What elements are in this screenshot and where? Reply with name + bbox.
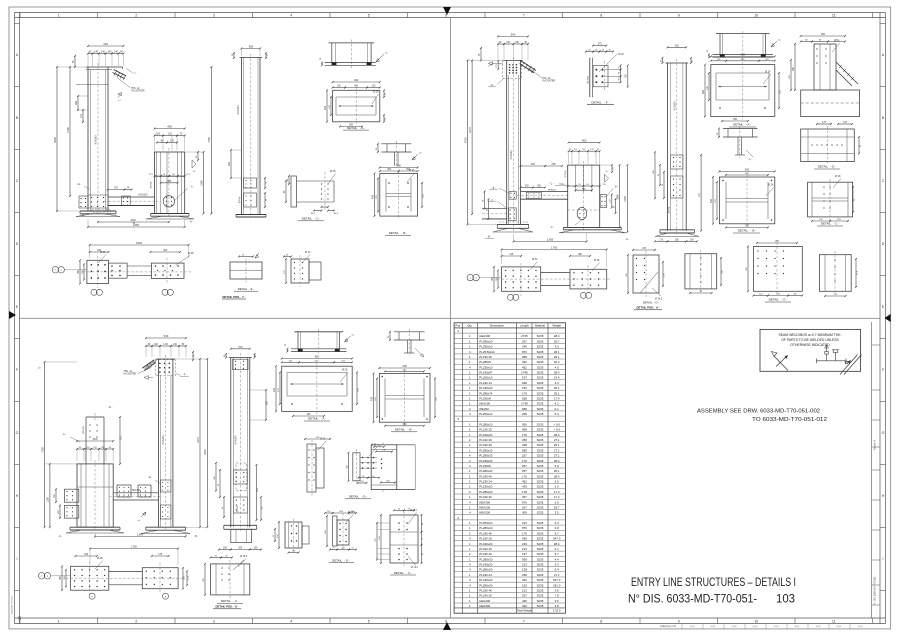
- Q1 plan view dim tier: [90, 251, 109, 253]
- svg-text:ASSEMBLY SEE DRW. 6033-MD-T70-: ASSEMBLY SEE DRW. 6033-MD-T70-051-002: [697, 409, 820, 415]
- Q1 gusset dims above: [155, 128, 185, 130]
- svg-text:- F -: - F -: [182, 374, 187, 377]
- svg-text:S235: S235: [537, 355, 544, 359]
- svg-text:240: 240: [273, 387, 276, 392]
- svg-text:- C -: - C -: [62, 433, 67, 436]
- Q3 plan tier dims: [75, 555, 97, 557]
- Q1 gusset girder frame: [155, 152, 185, 214]
- svg-text:600: 600: [93, 437, 98, 441]
- Q2 plan leader d28: [592, 263, 600, 272]
- svg-text:Ø 28: Ø 28: [594, 259, 600, 262]
- svg-text:S235: S235: [537, 381, 544, 385]
- svg-text:400: 400: [370, 396, 373, 401]
- svg-text:PL190x8: PL190x8: [479, 464, 491, 468]
- Q1 gusset weld symbol: [192, 160, 196, 168]
- svg-text:1030: 1030: [130, 219, 136, 222]
- Q3 column K5 top bolted head: [159, 363, 161, 365]
- svg-text:S235: S235: [537, 542, 544, 546]
- svg-text:257: 257: [522, 506, 527, 510]
- Q1 detail A leader d26: [372, 94, 379, 104]
- svg-text:PL190 44: PL190 44: [479, 381, 492, 385]
- Q1 small dim 75 top-left: [74, 56, 76, 67]
- Q1 column K2 top dim 300: [242, 48, 261, 50]
- Q2 column K4 centreline: [676, 59, 678, 234]
- svg-text:1: 1: [58, 13, 60, 17]
- Q3 detail F column section: [285, 522, 302, 548]
- svg-text:9.7: 9.7: [555, 531, 559, 535]
- svg-text:S235: S235: [537, 422, 544, 426]
- svg-text:scale(mm) 1:10: scale(mm) 1:10: [660, 626, 677, 628]
- Q3 left girder frame: [77, 464, 113, 527]
- svg-text:- F -: - F -: [550, 226, 555, 229]
- svg-text:DETAIL - D -: DETAIL - D -: [643, 301, 660, 305]
- Q2 detail D box: [633, 249, 655, 251]
- svg-text:3: 3: [213, 619, 215, 623]
- Q3 column K5 lower connection plates: [160, 480, 171, 492]
- svg-text:PL280x8: PL280x8: [479, 360, 491, 364]
- svg-text:- E -: - E -: [614, 186, 619, 189]
- svg-text:DETAIL - A -: DETAIL - A -: [733, 123, 751, 127]
- svg-text:H: H: [882, 494, 885, 498]
- svg-text:5: 5: [368, 13, 370, 17]
- svg-text:Ø 26: Ø 26: [373, 91, 379, 94]
- svg-text:DETAIL - C -: DETAIL - C -: [221, 599, 239, 603]
- svg-text:5 0,1: 5 0,1: [837, 626, 843, 628]
- svg-text:PL280x20: PL280x20: [479, 557, 492, 561]
- Q1 detail C plate: [291, 176, 297, 207]
- Q2 detail F dims: [593, 45, 606, 47]
- svg-text:Ø 22: Ø 22: [618, 53, 624, 56]
- svg-text:342: 342: [522, 360, 527, 364]
- svg-text:320: 320: [228, 161, 231, 166]
- Q1 detail B plate: [380, 174, 418, 217]
- svg-text:3.8: 3.8: [555, 526, 559, 530]
- svg-text:13.4: 13.4: [554, 376, 560, 380]
- Q3 detail B T-section: [394, 331, 425, 333]
- Q1 column K2 centreline: [250, 54, 252, 218]
- top strip ticks and numbers: [19, 13, 21, 18]
- svg-text:300: 300: [167, 180, 172, 183]
- right strip ticks and letters: [880, 23, 886, 25]
- Q1 column K1 top dimension tier: [88, 53, 93, 55]
- Q2 corner bracket diagonal: [836, 62, 858, 84]
- Q3 detail C2 leader d18.0: [408, 513, 417, 525]
- Q1 detail C leader d18: [328, 174, 336, 185]
- Q2 plan left dims: [493, 267, 495, 291]
- Q3 column K6 bottom dims: [219, 549, 231, 551]
- Q3 detail E leader d23.2: [346, 515, 354, 523]
- svg-text:3.5: 3.5: [555, 511, 559, 515]
- Q2 plan right plate: [570, 269, 607, 289]
- svg-text:Ø 28: Ø 28: [342, 369, 348, 372]
- svg-text:S235: S235: [537, 464, 544, 468]
- svg-text:0.1: 0.1: [555, 407, 559, 411]
- top centre fold mark: [443, 7, 451, 15]
- Q3 thk note leader: [138, 367, 152, 373]
- Q2 detail A U-section: [716, 33, 770, 35]
- Q1 column K1 centreline: [97, 63, 99, 214]
- Q2 column K4 upper connection box: [671, 155, 683, 169]
- svg-text:547.0: 547.0: [553, 537, 561, 541]
- svg-text:IN-CENTER: IN-CENTER: [124, 374, 137, 376]
- svg-text:360: 360: [75, 100, 78, 105]
- svg-text:900: 900: [582, 139, 587, 143]
- svg-text:255: 255: [531, 163, 536, 166]
- svg-text:258: 258: [522, 412, 527, 416]
- svg-text:5: 5: [368, 619, 370, 623]
- svg-text:HEA300: HEA300: [479, 604, 490, 608]
- svg-text:213: 213: [522, 563, 527, 567]
- svg-text:S235: S235: [537, 480, 544, 484]
- Q3 column K5 centreline: [165, 355, 167, 531]
- svg-text:DETAIL - E -: DETAIL - E -: [332, 558, 350, 562]
- svg-text:THK. 10,: THK. 10,: [542, 78, 551, 80]
- svg-text:1 0,5: 1 0,5: [690, 626, 696, 628]
- svg-text:S235: S235: [537, 365, 544, 369]
- Q2 plan view tier dims: [502, 255, 521, 257]
- Q3 left assembly dims 600: [77, 440, 113, 442]
- Q3 detail B dims: [379, 367, 430, 369]
- svg-text:5 0,1: 5 0,1: [753, 626, 759, 628]
- Q3 plan shaft: [109, 571, 143, 573]
- Q2 column K4 right dim 878: [700, 155, 702, 231]
- Q1 plan axis marker B: [91, 289, 97, 295]
- svg-text:ENTRY LINE STRUCTURES – DETAIL: ENTRY LINE STRUCTURES – DETAILS I: [631, 577, 796, 589]
- svg-text:2: 2: [135, 619, 137, 623]
- Q1 detail pos7 dims: [284, 256, 291, 258]
- Q2 column K4 bottom dims: [655, 240, 667, 242]
- svg-text:- E -: - E -: [490, 84, 495, 87]
- svg-text:(P1300): (P1300): [588, 76, 590, 84]
- svg-text:175: 175: [598, 43, 603, 46]
- Q1 base plate flanges: [76, 214, 92, 217]
- svg-text:240: 240: [324, 105, 327, 110]
- svg-text:PL280x20: PL280x20: [479, 490, 492, 494]
- Q2 plan leader d22: [530, 262, 538, 271]
- Q2 girder internal dims: [568, 185, 576, 187]
- weld symbol left: [772, 352, 778, 357]
- svg-text:PL280x20: PL280x20: [479, 568, 492, 572]
- svg-text:170: 170: [170, 140, 175, 143]
- svg-text:S235: S235: [537, 485, 544, 489]
- Q1 right dim 2208: [210, 67, 212, 214]
- svg-text:3.4: 3.4: [555, 521, 559, 525]
- svg-text:> 0.0: > 0.0: [553, 428, 560, 432]
- Q3 plan axis marker C2: [38, 573, 44, 579]
- svg-text:S235: S235: [537, 604, 544, 608]
- svg-text:HEA500: HEA500: [548, 188, 557, 191]
- svg-text:429: 429: [522, 485, 527, 489]
- Q2 small dim 75 left: [480, 48, 482, 60]
- svg-text:938: 938: [522, 557, 527, 561]
- corner junction circle: [18, 617, 21, 620]
- svg-text:S235: S235: [537, 531, 544, 535]
- svg-text:PL190 26: PL190 26: [479, 537, 492, 541]
- svg-text:Ø 18.0: Ø 18.0: [410, 510, 418, 512]
- Q1 detail B T-section: [381, 143, 411, 145]
- svg-text:S235: S235: [537, 568, 544, 572]
- svg-text:S235: S235: [537, 557, 544, 561]
- svg-text:- B -: - B -: [194, 535, 199, 538]
- svg-text:DETAIL - A -: DETAIL - A -: [347, 126, 365, 130]
- Q1 gusset right dim 1148: [203, 152, 205, 214]
- svg-text:- C -: - C -: [549, 182, 554, 185]
- Q2 detail G side plate: [819, 255, 851, 292]
- svg-text:PL190 46: PL190 46: [479, 589, 492, 593]
- svg-text:1 0,5: 1 0,5: [816, 626, 822, 628]
- svg-text:8710: 8710: [463, 137, 467, 143]
- svg-text:(P1500): (P1500): [83, 426, 85, 434]
- Q1 plan left plate: [87, 260, 109, 283]
- Q1 plan axis marker C2: [52, 267, 58, 273]
- svg-text:429: 429: [522, 604, 527, 608]
- svg-text:876: 876: [522, 500, 527, 504]
- svg-text:HEA360: HEA360: [95, 135, 98, 145]
- svg-text:958: 958: [522, 428, 527, 432]
- svg-text:S235: S235: [537, 443, 544, 447]
- bottom strip ticks and numbers: [19, 618, 21, 624]
- svg-text:S235: S235: [537, 495, 544, 499]
- svg-text:DETAIL - C -: DETAIL - C -: [394, 571, 412, 575]
- Q1 gusset bolt circle: [163, 196, 174, 207]
- svg-text:S235: S235: [537, 552, 544, 556]
- svg-text:- D -: - D -: [108, 406, 113, 409]
- Q1 left dimension 2630: [56, 67, 58, 211]
- svg-text:S235: S235: [537, 438, 544, 442]
- svg-text:1: 1: [58, 619, 60, 623]
- svg-text:257: 257: [522, 469, 527, 473]
- svg-text:> 0.0: > 0.0: [553, 422, 560, 426]
- svg-text:PL280x10: PL280x10: [479, 422, 492, 426]
- svg-text:5.4: 5.4: [555, 412, 559, 416]
- svg-text:PL190 46: PL190 46: [479, 531, 492, 535]
- svg-text:PL190 26: PL190 26: [479, 495, 492, 499]
- Q2 column K4 HEA300 profile: [666, 63, 668, 231]
- svg-text:PL280x10: PL280x10: [479, 526, 492, 530]
- Q2 splice plate on beam: [526, 192, 541, 198]
- svg-text:938: 938: [522, 381, 527, 385]
- svg-text:DETAIL POS. - 8 -: DETAIL POS. - 8 -: [215, 605, 238, 609]
- Q2 detail B leader d26: [766, 187, 774, 196]
- svg-text:450: 450: [371, 194, 374, 199]
- svg-text:(P500): (P500): [669, 206, 671, 213]
- svg-text:PL280x20: PL280x20: [479, 454, 492, 458]
- svg-text:PL230x10: PL230x10: [479, 365, 492, 369]
- Q1 dim 1030: [98, 221, 169, 223]
- svg-text:140: 140: [94, 50, 99, 53]
- svg-text:Description: Description: [490, 324, 504, 328]
- Q2 column K4 base: [660, 229, 695, 231]
- Q1 plan shaft: [127, 265, 151, 267]
- svg-text:S235: S235: [537, 386, 544, 390]
- svg-text:Ø 22: Ø 22: [532, 258, 538, 261]
- svg-text:S235: S235: [537, 407, 544, 411]
- Q1 column K1 base plate: [80, 210, 116, 212]
- svg-text:876: 876: [522, 350, 527, 354]
- Q1 weld flag 2: [118, 92, 122, 95]
- Q2 plan axis marker B: [508, 294, 514, 300]
- svg-text:213: 213: [522, 521, 527, 525]
- svg-text:S235: S235: [537, 594, 544, 598]
- svg-text:S235: S235: [537, 563, 544, 567]
- parts list table frame: [454, 323, 565, 613]
- Q2 column K4 mid dims left: [654, 152, 656, 198]
- svg-text:445: 445: [522, 599, 527, 603]
- svg-text:S235: S235: [537, 412, 544, 416]
- Q2 column K4 lower connection box: [671, 176, 683, 198]
- svg-text:G: G: [16, 431, 19, 435]
- Q2 detail G plates: [757, 242, 797, 244]
- svg-text:C: C: [16, 179, 19, 183]
- Q2 column K3 HEA300 profile: [506, 60, 508, 224]
- Q2 girder frame: [568, 165, 600, 227]
- Q3 column K6 base: [224, 524, 257, 526]
- Q1 angle leader 17deg: [127, 69, 133, 73]
- svg-text:- C -: - C -: [490, 199, 495, 202]
- svg-text:Ø 18: Ø 18: [835, 175, 841, 178]
- Q3 detail C dim left: [204, 564, 206, 595]
- Q2 column K3 top bolted head: [509, 64, 511, 66]
- svg-text:5 0,1: 5 0,1: [795, 626, 801, 628]
- Q3 plan axis marker B: [89, 593, 95, 599]
- Q3 plan leader d28: [95, 561, 103, 570]
- svg-text:1,950: 1,950: [547, 237, 554, 241]
- Q3 plan dims left: [61, 566, 63, 590]
- svg-text:PL190 46: PL190 46: [479, 552, 492, 556]
- Q3 bottom dim 1860: [95, 536, 186, 538]
- Q2 left dimension 3175: [471, 60, 473, 214]
- Q3 left small dims: [55, 489, 57, 502]
- svg-text:958: 958: [522, 355, 527, 359]
- Q1 column K2 HEA300 profile: [241, 58, 243, 215]
- svg-text:220: 220: [103, 42, 108, 46]
- svg-text:2630: 2630: [53, 137, 57, 143]
- svg-text:197: 197: [522, 376, 527, 380]
- svg-text:PL190 24: PL190 24: [479, 573, 492, 577]
- Q2 plan shaft: [541, 272, 570, 274]
- svg-text:400: 400: [397, 164, 402, 168]
- svg-text:PL190x20: PL190x20: [479, 459, 492, 463]
- svg-text:PL190x20: PL190x20: [479, 578, 492, 582]
- svg-text:- C -: - C -: [189, 185, 194, 189]
- svg-text:- A -: - A -: [189, 220, 194, 224]
- svg-text:HEA300: HEA300: [132, 489, 141, 492]
- Q3 plan right plate: [142, 568, 178, 589]
- svg-text:17.4: 17.4: [554, 495, 560, 499]
- Q2 detail B plate: [719, 177, 774, 224]
- svg-text:1 0,5: 1 0,5: [774, 626, 780, 628]
- Q1 detail B weld arrow: [412, 154, 418, 160]
- seam weldings note box: [760, 329, 861, 371]
- Q3 column K6 profile: [230, 358, 232, 528]
- Q3 left side plates: [64, 489, 78, 502]
- svg-text:S235: S235: [537, 500, 544, 504]
- parts list total weight row: [454, 607, 565, 609]
- svg-text:1.30: 1.30: [163, 344, 168, 346]
- svg-text:S235: S235: [537, 578, 544, 582]
- svg-text:3210: 3210: [203, 449, 207, 455]
- svg-text:0.1: 0.1: [555, 547, 559, 551]
- svg-text:10: 10: [754, 13, 758, 17]
- Q2 column K3 lower connection plates: [509, 192, 516, 200]
- svg-text:28.4: 28.4: [554, 542, 560, 546]
- svg-text:Ø 18: Ø 18: [834, 40, 840, 43]
- svg-text:HEA200: HEA200: [479, 599, 490, 603]
- Q2 bottom dim 1950: [514, 241, 587, 243]
- svg-text:138: 138: [522, 568, 527, 572]
- svg-text:257: 257: [522, 594, 527, 598]
- Q2 left dimension 8710: [467, 60, 469, 224]
- svg-text:DETAIL - B -: DETAIL - B -: [389, 231, 407, 235]
- Q1 detail A plate: [333, 90, 380, 122]
- svg-text:Ø 14: Ø 14: [305, 251, 311, 254]
- svg-text:HEA200: HEA200: [479, 402, 490, 406]
- Q3 detail C leader d18.2: [238, 559, 246, 568]
- svg-text:S235: S235: [537, 490, 544, 494]
- svg-text:PL190x20: PL190x20: [479, 386, 492, 390]
- svg-text:9: 9: [678, 13, 680, 17]
- right coordinate strip: [879, 13, 881, 624]
- svg-text:DETAIL - E -: DETAIL - E -: [818, 165, 836, 169]
- Q3 girder base plate: [70, 526, 120, 528]
- weld symbol right: [826, 345, 828, 352]
- svg-text:257: 257: [522, 339, 527, 343]
- svg-text:181.0: 181.0: [553, 583, 561, 587]
- Q2 girder base plate: [563, 226, 621, 228]
- Q1 detail pos7 leader d14: [303, 255, 310, 263]
- svg-text:DETAIL - C -: DETAIL - C -: [821, 222, 840, 226]
- svg-text:HEA200: HEA200: [479, 506, 490, 510]
- svg-text:7208: 7208: [41, 447, 44, 453]
- svg-text:340: 340: [511, 33, 516, 37]
- svg-text:2: 2: [135, 13, 137, 17]
- svg-text:PL25.8x114: PL25.8x114: [479, 350, 495, 354]
- svg-text:176: 176: [522, 531, 527, 535]
- svg-text:249: 249: [522, 542, 527, 546]
- Q3 right top dim 75: [192, 352, 194, 360]
- Q2 detail A leader d26: [763, 74, 771, 84]
- svg-text:452: 452: [522, 480, 527, 484]
- svg-text:27.1: 27.1: [554, 454, 560, 458]
- Q1 plan leader d28: [176, 256, 190, 266]
- svg-text:3175: 3175: [196, 437, 200, 443]
- parts list header row: [454, 327, 565, 329]
- svg-text:PL190x20: PL190x20: [479, 542, 492, 546]
- svg-text:DETAIL - F -: DETAIL - F -: [591, 100, 609, 104]
- svg-text:Ø 28: Ø 28: [188, 252, 194, 255]
- svg-text:DETAIL POS. - 9 -: DETAIL POS. - 9 -: [636, 306, 659, 310]
- parts list rows: [454, 327, 565, 329]
- Q1 plan axis marker A: [162, 289, 168, 295]
- svg-text:27.1: 27.1: [554, 448, 560, 452]
- svg-text:S235: S235: [537, 511, 544, 515]
- Q3 column K6 connection boxes: [236, 463, 246, 491]
- svg-text:OF PARTS TO BE WELDED UNLESS: OF PARTS TO BE WELDED UNLESS: [781, 338, 839, 342]
- Q1 connecting beam to gusset: [108, 196, 155, 198]
- svg-text:950: 950: [315, 355, 320, 359]
- Q3 column K6 mid dims left: [215, 463, 217, 491]
- svg-text:- E -: - E -: [148, 476, 153, 479]
- svg-text:- B -: - B -: [487, 235, 492, 238]
- svg-text:5 0,1: 5 0,1: [711, 626, 717, 628]
- Q3 plan dims right: [182, 568, 184, 589]
- Q1 thk note leader: [117, 78, 130, 88]
- svg-text:HEA300: HEA300: [479, 511, 490, 515]
- svg-text:I: I: [883, 557, 884, 561]
- Q1 plan right plate: [152, 263, 185, 278]
- svg-text:26.1: 26.1: [554, 355, 560, 359]
- Q2 detail E bar: [817, 123, 831, 125]
